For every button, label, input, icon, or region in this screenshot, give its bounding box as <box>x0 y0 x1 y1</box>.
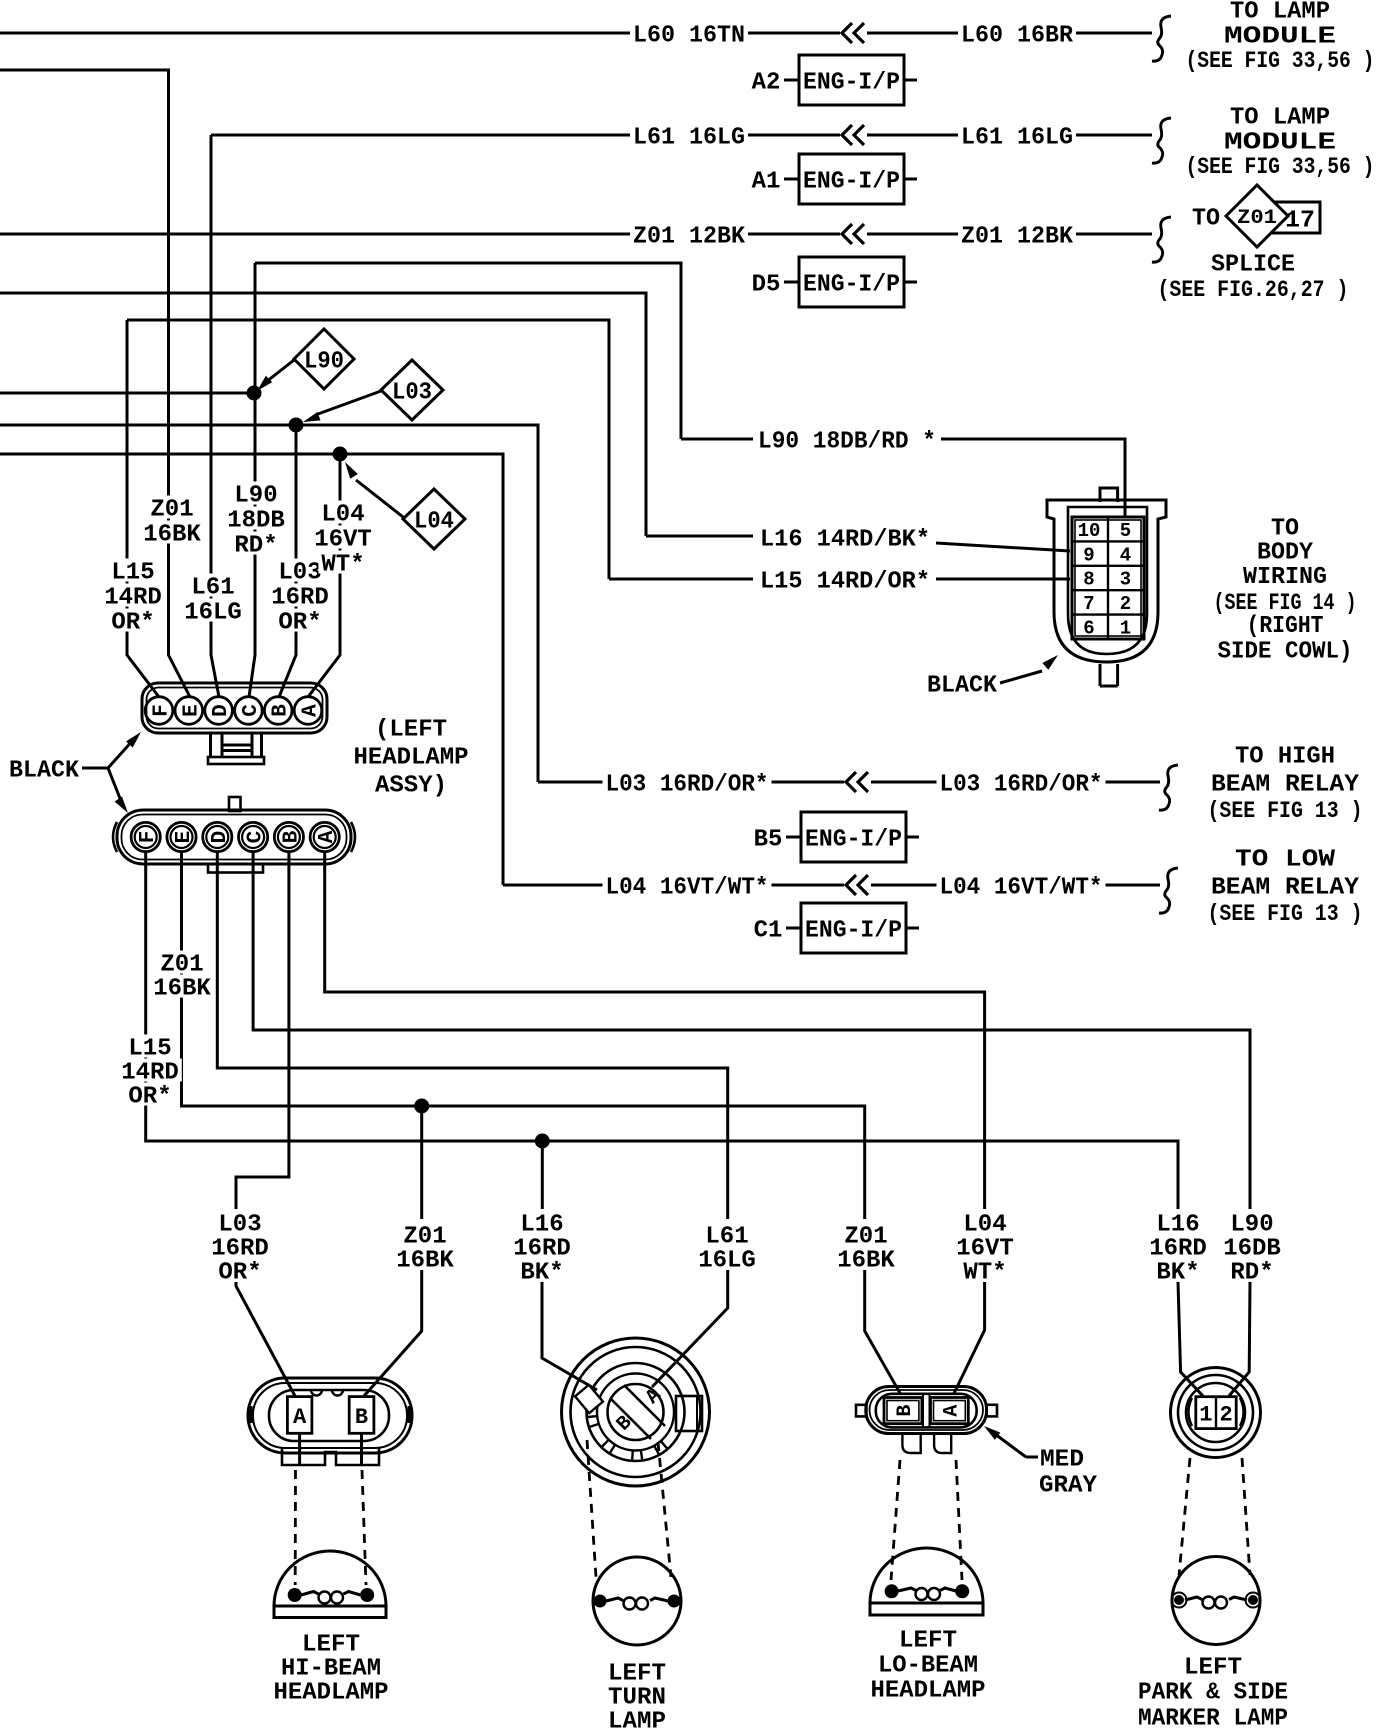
svg-text:ENG-I/P: ENG-I/P <box>805 918 902 945</box>
splice symbol Z01 17 <box>1192 185 1320 247</box>
svg-text:Z01 12BK: Z01 12BK <box>961 224 1074 251</box>
label L15 14RD OR* pin F <box>118 1034 182 1110</box>
connector C1 ENG-I/P <box>754 903 919 953</box>
svg-text:5: 5 <box>1120 520 1131 542</box>
wire L90 to park pin 2 <box>1229 1282 1250 1396</box>
svg-text:L04: L04 <box>414 509 454 536</box>
svg-text:3: 3 <box>1120 569 1131 591</box>
svg-text:TO: TO <box>1271 516 1299 543</box>
destination text lamp module 2 <box>1186 105 1375 181</box>
label Z01 16BK hi-beam <box>393 1222 457 1274</box>
flag L03 diamond <box>303 360 443 422</box>
svg-text:B5: B5 <box>754 827 783 854</box>
svg-text:Z01 12BK: Z01 12BK <box>633 224 746 251</box>
svg-text:MARKER LAMP: MARKER LAMP <box>1138 1706 1288 1728</box>
svg-text:B: B <box>270 704 293 717</box>
off-page brace row L60 16TN <box>1152 16 1171 61</box>
inline connector splice L04 16VT/WT* <box>844 874 871 896</box>
wire Z01 16BK to pin E <box>0 70 190 697</box>
wire L90 18DB/RD to body pin 5 <box>681 427 1125 517</box>
svg-text:L60 16BR: L60 16BR <box>961 23 1074 50</box>
lamp left park lamp <box>1172 1557 1261 1645</box>
svg-text:BEAM RELAY: BEAM RELAY <box>1211 772 1360 799</box>
svg-text:10: 10 <box>1078 520 1101 542</box>
wire pin D to L61 row <box>217 852 727 1219</box>
svg-text:(RIGHT: (RIGHT <box>1247 613 1324 640</box>
label L04 16VT/WT* engine side <box>603 873 772 901</box>
flag L04 diamond <box>345 462 465 549</box>
svg-text:BLACK: BLACK <box>9 758 80 785</box>
svg-text:L90: L90 <box>234 483 277 510</box>
label L90 16DB RD* park <box>1220 1210 1284 1286</box>
svg-text:A: A <box>299 704 322 717</box>
svg-text:L90: L90 <box>304 349 344 376</box>
svg-text:LEFT: LEFT <box>608 1661 666 1688</box>
svg-text:6: 6 <box>1083 618 1094 640</box>
svg-text:2: 2 <box>1120 593 1131 615</box>
destination text body wiring <box>1214 516 1357 666</box>
off-page brace row L61 16LG <box>1152 118 1171 163</box>
svg-text:Z01: Z01 <box>403 1224 446 1251</box>
connector C2 left headlamp assy 6-way <box>113 797 355 873</box>
wire L61 16LG to pin D <box>211 135 219 697</box>
wire L61 to turn lamp <box>652 1270 728 1387</box>
svg-text:17: 17 <box>1285 208 1315 235</box>
svg-text:F: F <box>150 704 173 717</box>
svg-text:1: 1 <box>1199 1402 1212 1427</box>
svg-text:WT*: WT* <box>321 552 364 579</box>
svg-text:L04 16VT/WT*: L04 16VT/WT* <box>606 875 769 902</box>
wire row L04 16VT/WT* <box>503 884 1160 887</box>
svg-text:TO LOW: TO LOW <box>1235 847 1336 874</box>
svg-text:WIRING: WIRING <box>1243 564 1327 591</box>
wire L90 18DB to pin C <box>249 263 255 697</box>
svg-text:16BK: 16BK <box>153 976 211 1003</box>
svg-text:LO-BEAM: LO-BEAM <box>878 1653 978 1680</box>
svg-text:L16 14RD/BK*: L16 14RD/BK* <box>760 527 930 554</box>
svg-text:ENG-I/P: ENG-I/P <box>803 70 900 97</box>
off-page brace row Z01 12BK <box>1152 217 1171 262</box>
svg-text:D5: D5 <box>752 272 781 299</box>
destination text L04 16VT/WT* <box>1208 847 1363 928</box>
svg-text:C: C <box>240 704 263 717</box>
label MED GRAY <box>1039 1447 1098 1500</box>
label L04 16VT WT* lo-beam <box>953 1210 1017 1286</box>
svg-text:MED: MED <box>1040 1447 1084 1474</box>
svg-text:HEADLAMP: HEADLAMP <box>354 745 469 772</box>
wire L16 to turn lamp <box>542 1282 597 1390</box>
svg-text:L15: L15 <box>111 560 154 587</box>
svg-text:L04: L04 <box>963 1212 1006 1239</box>
wire row Z01 12BK <box>0 233 1152 236</box>
node L90 junction <box>247 386 262 401</box>
svg-text:OR*: OR* <box>218 1260 261 1287</box>
svg-text:L61 16LG: L61 16LG <box>961 125 1073 152</box>
svg-text:(SEE FIG 33,56 ): (SEE FIG 33,56 ) <box>1186 154 1375 180</box>
svg-text:L03 16RD/OR*: L03 16RD/OR* <box>606 772 769 799</box>
label L60 16TN <box>630 21 748 49</box>
label L03 16RD OR* hi-beam <box>208 1210 272 1286</box>
svg-text:SIDE COWL): SIDE COWL) <box>1218 639 1353 666</box>
connector body wiring 10-way <box>1047 488 1166 686</box>
label BLACK body <box>927 673 998 700</box>
svg-text:HEADLAMP: HEADLAMP <box>274 1680 389 1707</box>
label Z01 16BK pin E <box>150 950 214 1002</box>
inline connector splice L60 16TN <box>840 22 867 44</box>
wire L15 14RD bus <box>127 320 609 579</box>
leader MED GRAY <box>984 1426 1038 1457</box>
svg-text:F: F <box>137 831 160 844</box>
svg-text:TURN: TURN <box>608 1685 666 1712</box>
svg-text:(SEE FIG 13 ): (SEE FIG 13 ) <box>1208 901 1363 927</box>
lamp left hi-beam headlamp <box>274 1551 386 1618</box>
svg-text:A: A <box>316 830 339 843</box>
svg-text:16RD: 16RD <box>513 1236 571 1263</box>
svg-text:OR*: OR* <box>111 610 154 637</box>
svg-text:(LEFT: (LEFT <box>375 717 447 744</box>
svg-text:9: 9 <box>1083 544 1094 566</box>
wire L03 to pin B <box>279 425 296 697</box>
label L61 16LG turn <box>695 1222 759 1274</box>
label L60 16BR <box>958 21 1076 49</box>
leader BLACK to connectors <box>82 732 141 813</box>
connector B5 ENG-I/P <box>754 812 919 862</box>
svg-text:A: A <box>941 1405 964 1417</box>
svg-text:MODULE: MODULE <box>1224 130 1336 157</box>
dashed wire turn 1 <box>587 1440 596 1577</box>
wire Z01 branch down <box>420 1106 423 1219</box>
dashed wire lo-beam A <box>956 1460 962 1580</box>
wire pin B to L03 drop <box>236 852 289 1209</box>
svg-text:B: B <box>280 830 303 843</box>
svg-text:(SEE FIG.26,27 ): (SEE FIG.26,27 ) <box>1158 277 1349 303</box>
svg-text:SPLICE: SPLICE <box>1211 252 1295 279</box>
svg-text:Z01: Z01 <box>160 952 203 979</box>
svg-text:Z01: Z01 <box>1237 207 1277 230</box>
connector C1 left headlamp assy 6-way <box>142 683 327 764</box>
svg-text:C1: C1 <box>754 918 783 945</box>
connector left turn lamp <box>562 1338 710 1486</box>
label L04 16VT WT* upper <box>311 500 375 578</box>
label left turn lamp <box>608 1661 666 1728</box>
wire row L60 16TN <box>0 32 1152 35</box>
svg-text:BLACK: BLACK <box>927 673 998 700</box>
wire L16 14RD to body connector <box>0 293 646 536</box>
node L16 branch <box>535 1134 550 1149</box>
wire L16 14RD/BK to body pin 9 <box>646 525 1070 553</box>
leader BLACK to body connector <box>1000 655 1058 683</box>
label left park lamp <box>1138 1655 1288 1728</box>
inline connector splice Z01 12BK <box>840 223 867 245</box>
dashed wire lo-beam B <box>891 1460 900 1580</box>
svg-text:GRAY: GRAY <box>1039 1473 1098 1500</box>
node L03 junction <box>289 418 304 433</box>
wire row L04 to relay drop <box>0 454 503 885</box>
lamp left lo-beam headlamp <box>870 1548 983 1615</box>
inline connector splice L03 16RD/OR* <box>844 771 871 793</box>
svg-text:(SEE FIG 33,56 ): (SEE FIG 33,56 ) <box>1186 48 1375 74</box>
svg-text:L15: L15 <box>128 1036 171 1063</box>
svg-text:Z01: Z01 <box>150 497 193 524</box>
svg-text:B: B <box>894 1405 917 1417</box>
connector left lo-beam headlamp 2-way <box>856 1387 997 1454</box>
svg-text:RD*: RD* <box>1230 1260 1273 1287</box>
svg-text:ENG-I/P: ENG-I/P <box>803 272 900 299</box>
svg-text:L03: L03 <box>218 1212 261 1239</box>
svg-text:TO HIGH: TO HIGH <box>1235 744 1335 771</box>
svg-text:14RD: 14RD <box>104 585 162 612</box>
svg-text:L60 16TN: L60 16TN <box>633 23 745 50</box>
off-page brace L04 16VT/WT* <box>1159 868 1178 913</box>
svg-text:18DB: 18DB <box>227 508 285 535</box>
svg-text:L61 16LG: L61 16LG <box>633 125 745 152</box>
label L61 16LG <box>630 123 748 151</box>
svg-text:(SEE FIG 13 ): (SEE FIG 13 ) <box>1208 798 1363 824</box>
off-page brace L03 16RD/OR* <box>1159 765 1178 810</box>
svg-text:BODY: BODY <box>1257 540 1314 567</box>
label left hi-beam headlamp <box>274 1632 389 1707</box>
label Z01 12BK <box>630 222 748 250</box>
wire row L03 16RD/OR* <box>538 781 1160 784</box>
svg-text:OR*: OR* <box>128 1084 171 1111</box>
wire pin E to Z01 row <box>182 852 865 1219</box>
svg-text:HI-BEAM: HI-BEAM <box>281 1656 381 1683</box>
svg-text:L90: L90 <box>1230 1212 1273 1239</box>
svg-text:A1: A1 <box>752 169 781 196</box>
svg-text:RD*: RD* <box>234 533 277 560</box>
svg-text:OR*: OR* <box>278 610 321 637</box>
svg-text:16RD: 16RD <box>1149 1236 1207 1263</box>
wire Z01 to lo-beam pin B <box>865 1270 901 1394</box>
wire stub to node L90 <box>0 392 254 395</box>
svg-text:PARK & SIDE: PARK & SIDE <box>1138 1680 1288 1707</box>
lamp left turn lamp <box>593 1557 681 1645</box>
svg-text:1: 1 <box>1120 618 1131 640</box>
wire L16 branch down <box>541 1141 544 1209</box>
label L15 14RD OR* <box>101 558 165 636</box>
label Z01 12BK <box>958 222 1076 250</box>
svg-text:16BK: 16BK <box>143 522 201 549</box>
svg-text:ENG-I/P: ENG-I/P <box>803 169 900 196</box>
connector left park lamp 2-way <box>1171 1368 1261 1458</box>
label L03 16RD OR* upper <box>268 558 332 636</box>
svg-text:L61: L61 <box>705 1224 748 1251</box>
svg-text:L90 18DB/RD *: L90 18DB/RD * <box>758 429 936 456</box>
splice text <box>1158 252 1349 304</box>
wire L03 to hi-beam pin A <box>236 1282 295 1396</box>
wire L15 14RD to pin F <box>127 320 159 697</box>
wire L04 to pin A <box>308 454 340 697</box>
node Z01 branch <box>414 1099 429 1114</box>
connector A1 ENG-I/P <box>752 154 917 204</box>
label L90 18DB RD* <box>224 481 288 559</box>
label Z01 16BK upper <box>140 495 204 548</box>
svg-text:L16: L16 <box>520 1212 563 1239</box>
dashed wire hi-beam B <box>362 1470 366 1585</box>
label Z01 16BK lo-beam <box>834 1222 898 1274</box>
wire row L61 16LG <box>211 134 1152 137</box>
svg-text:A: A <box>293 1405 307 1430</box>
node L04 junction <box>333 447 348 462</box>
label L04 16VT/WT* relay side <box>937 873 1106 901</box>
label L61 16LG upper <box>181 573 245 626</box>
inline connector splice L61 16LG <box>840 124 867 146</box>
dashed wire park 1 <box>1179 1458 1190 1575</box>
dashed wire hi-beam A <box>294 1470 297 1585</box>
svg-text:16VT: 16VT <box>314 527 372 554</box>
label L16 16RD BK* turn <box>510 1210 574 1286</box>
svg-text:TO: TO <box>1192 206 1220 233</box>
wire L15 14RD/OR to body pin 8 <box>609 567 1070 595</box>
svg-text:L15 14RD/OR*: L15 14RD/OR* <box>760 569 930 596</box>
connector left hi-beam headlamp 2-way <box>248 1378 412 1465</box>
dashed wire park 2 <box>1242 1458 1250 1575</box>
wire L04 to lo-beam pin A <box>954 1282 985 1394</box>
svg-text:2: 2 <box>1219 1402 1232 1427</box>
svg-text:16BK: 16BK <box>837 1248 895 1275</box>
svg-text:16RD: 16RD <box>211 1236 269 1263</box>
svg-text:16RD: 16RD <box>271 585 329 612</box>
svg-text:E: E <box>173 831 196 844</box>
svg-text:C: C <box>245 830 268 843</box>
svg-text:D: D <box>209 831 232 844</box>
svg-text:16LG: 16LG <box>184 600 242 627</box>
wire row L03 to relay drop <box>0 425 538 782</box>
destination text L03 16RD/OR* <box>1208 744 1363 825</box>
svg-text:Z01: Z01 <box>844 1224 887 1251</box>
wire pin F to L16 row <box>146 852 1178 1209</box>
label L03 16RD/OR* relay side <box>937 770 1106 798</box>
svg-text:MODULE: MODULE <box>1224 24 1336 51</box>
svg-text:16VT: 16VT <box>956 1236 1014 1263</box>
svg-text:8: 8 <box>1083 569 1094 591</box>
wire Z01 to hi-beam pin B <box>364 1270 422 1396</box>
svg-text:L03 16RD/OR*: L03 16RD/OR* <box>940 772 1103 799</box>
label L61 16LG <box>958 123 1076 151</box>
wire pin C to L90 row <box>253 852 1250 1209</box>
wire L90 branch to body connector <box>255 263 681 439</box>
svg-text:14RD: 14RD <box>121 1060 179 1087</box>
svg-text:LAMP: LAMP <box>608 1709 666 1728</box>
svg-text:L03: L03 <box>392 380 432 407</box>
wire L16 to park pin 1 <box>1178 1282 1203 1396</box>
svg-text:4: 4 <box>1120 544 1131 566</box>
destination text lamp module 1 <box>1186 0 1375 74</box>
dashed wire turn 2 <box>658 1442 671 1577</box>
svg-text:D: D <box>210 704 233 717</box>
connector A2 ENG-I/P <box>752 55 917 105</box>
label L16 16RD BK* park <box>1146 1210 1210 1286</box>
svg-text:ASSY): ASSY) <box>375 773 447 800</box>
svg-text:E: E <box>180 704 203 717</box>
wire pin A to L04 row <box>325 852 985 1209</box>
svg-text:L04: L04 <box>321 502 364 529</box>
svg-text:A2: A2 <box>752 70 781 97</box>
svg-text:16BK: 16BK <box>396 1248 454 1275</box>
svg-text:7: 7 <box>1083 593 1094 615</box>
label left lo-beam headlamp <box>871 1628 986 1705</box>
svg-text:L16: L16 <box>1156 1212 1199 1239</box>
svg-text:LEFT: LEFT <box>1184 1655 1242 1682</box>
svg-text:ENG-I/P: ENG-I/P <box>805 827 902 854</box>
svg-text:LEFT: LEFT <box>302 1632 360 1659</box>
svg-text:L61: L61 <box>191 575 234 602</box>
svg-text:TO LAMP: TO LAMP <box>1230 105 1330 132</box>
label BLACK left <box>9 758 80 785</box>
svg-text:TO LAMP: TO LAMP <box>1230 0 1330 26</box>
flag L90 diamond <box>257 329 354 391</box>
svg-text:16DB: 16DB <box>1223 1236 1281 1263</box>
connector D5 ENG-I/P <box>752 257 917 307</box>
label L03 16RD/OR* engine side <box>603 770 772 798</box>
svg-text:LEFT: LEFT <box>899 1628 957 1655</box>
svg-text:BEAM RELAY: BEAM RELAY <box>1211 875 1360 902</box>
svg-text:L04 16VT/WT*: L04 16VT/WT* <box>940 875 1103 902</box>
svg-text:B: B <box>355 1405 368 1430</box>
label left headlamp assy <box>354 717 469 800</box>
svg-text:L03: L03 <box>278 560 321 587</box>
svg-text:HEADLAMP: HEADLAMP <box>871 1678 986 1705</box>
